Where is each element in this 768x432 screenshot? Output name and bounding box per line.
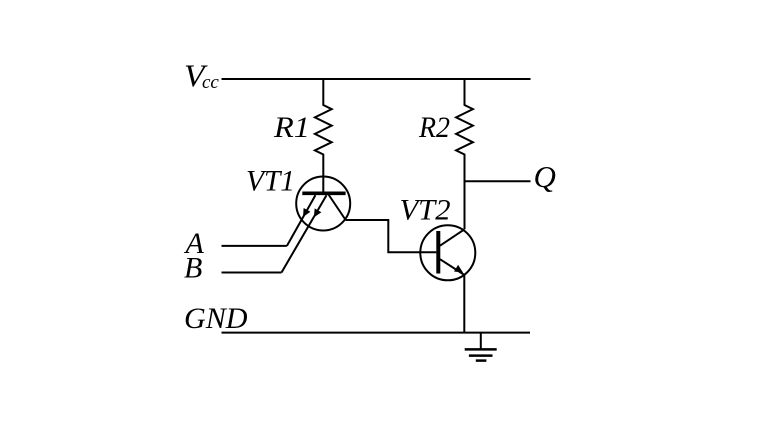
wire input A xyxy=(222,245,287,247)
label VT2 xyxy=(400,194,451,227)
transistor VT2 xyxy=(420,225,475,280)
node A xyxy=(184,227,205,260)
svg-text:B: B xyxy=(184,252,202,285)
net label Vcc xyxy=(184,58,219,94)
svg-text:Vcc: Vcc xyxy=(184,58,219,94)
svg-text:Q: Q xyxy=(534,159,556,194)
resistor R1 xyxy=(315,79,332,192)
wire GND rail xyxy=(222,332,531,334)
svg-text:VT2: VT2 xyxy=(400,194,451,227)
label VT1 xyxy=(246,165,295,198)
svg-text:GND: GND xyxy=(184,302,248,335)
ground symbol xyxy=(465,333,497,361)
label GND xyxy=(184,302,248,335)
label R1 xyxy=(273,111,310,144)
wire output Q xyxy=(465,180,531,182)
svg-text:VT1: VT1 xyxy=(246,165,295,198)
svg-text:R1: R1 xyxy=(273,111,310,144)
wire VT1 collector to VT2 base xyxy=(346,220,436,252)
resistor R2 xyxy=(456,79,473,229)
wire VT2 emitter to ground rail xyxy=(463,275,465,333)
node B xyxy=(184,252,202,285)
label R2 xyxy=(418,111,450,144)
node Q xyxy=(534,159,556,194)
wire Vcc rail xyxy=(222,78,531,80)
wire input B xyxy=(222,272,282,274)
svg-text:R2: R2 xyxy=(418,111,450,144)
transistor VT1 xyxy=(282,177,351,273)
